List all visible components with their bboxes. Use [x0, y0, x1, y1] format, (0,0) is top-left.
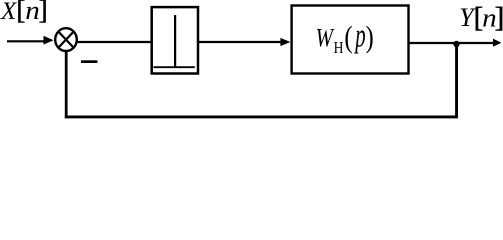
block W_H(p) [292, 6, 409, 74]
summing junction circle [55, 28, 77, 51]
svg-text:X: X [0, 0, 18, 25]
junction node dot [453, 41, 459, 47]
output label Y[n] [459, 1, 503, 33]
feedback wire bottom run [65, 115, 458, 118]
svg-text:(: ( [344, 21, 352, 55]
minus sign [81, 60, 98, 63]
svg-text:W: W [316, 24, 335, 53]
svg-text:]: ] [39, 0, 48, 25]
wire sampler to W block [199, 41, 282, 43]
svg-text:H: H [334, 39, 344, 58]
summing junction X diagonals [58, 32, 73, 48]
arrowhead into summer [44, 36, 54, 45]
feedback wire up into summer [65, 51, 68, 118]
input label X[n] [0, 0, 48, 25]
feedback wire down from junction [455, 44, 458, 117]
output arrowhead [493, 39, 501, 47]
output wire [409, 42, 493, 44]
input wire [7, 40, 46, 42]
svg-text:): ) [366, 21, 374, 55]
svg-text:[: [ [16, 0, 25, 25]
svg-text:p: p [354, 18, 366, 55]
sampler symbol base [154, 66, 195, 68]
label W_H(p) [316, 18, 374, 58]
sampler symbol vertical [174, 15, 176, 67]
sampler block [152, 7, 198, 73]
wire summer to sampler [77, 41, 152, 43]
arrowhead into W block [280, 38, 290, 46]
svg-text:]: ] [495, 1, 503, 33]
